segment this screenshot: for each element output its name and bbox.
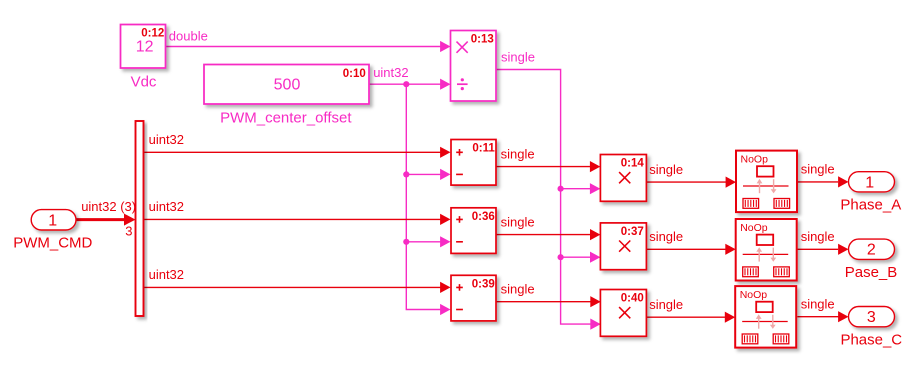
svg-text:single: single xyxy=(801,296,835,311)
svg-text:3: 3 xyxy=(867,309,876,326)
svg-text:NoOp: NoOp xyxy=(740,289,768,301)
svg-text:0:12: 0:12 xyxy=(141,27,164,39)
svg-text:0:13: 0:13 xyxy=(471,33,494,45)
svg-text:single: single xyxy=(501,50,535,65)
svg-text:uint32: uint32 xyxy=(149,132,184,147)
svg-text:Pase_B: Pase_B xyxy=(845,264,898,281)
svg-text:double: double xyxy=(169,29,208,44)
svg-text:0:14: 0:14 xyxy=(621,158,645,170)
svg-text:NoOp: NoOp xyxy=(740,222,768,234)
svg-text:1: 1 xyxy=(48,212,57,229)
svg-text:500: 500 xyxy=(274,77,301,94)
svg-text:single: single xyxy=(501,281,535,296)
svg-text:0:11: 0:11 xyxy=(472,143,495,155)
svg-text:single: single xyxy=(649,297,683,312)
svg-text:Vdc: Vdc xyxy=(131,74,157,91)
svg-text:12: 12 xyxy=(136,39,154,56)
svg-text:0:10: 0:10 xyxy=(343,68,366,80)
svg-text:3: 3 xyxy=(125,224,132,239)
svg-text:0:40: 0:40 xyxy=(621,293,644,305)
svg-text:single: single xyxy=(801,229,835,244)
svg-text:single: single xyxy=(501,146,535,161)
svg-text:0:39: 0:39 xyxy=(472,278,495,290)
svg-text:single: single xyxy=(501,214,535,229)
svg-text:uint32: uint32 xyxy=(149,199,184,214)
svg-text:single: single xyxy=(649,162,683,177)
svg-text:single: single xyxy=(649,229,683,244)
svg-text:uint32 (3): uint32 (3) xyxy=(81,199,136,214)
svg-text:1: 1 xyxy=(865,174,874,191)
svg-text:uint32: uint32 xyxy=(149,267,184,282)
svg-text:single: single xyxy=(801,162,835,177)
svg-text:PWM_CMD: PWM_CMD xyxy=(13,235,92,252)
svg-text:0:37: 0:37 xyxy=(621,226,644,238)
svg-text:PWM_center_offset: PWM_center_offset xyxy=(220,110,352,127)
svg-text:uint32: uint32 xyxy=(373,65,408,80)
svg-text:2: 2 xyxy=(867,242,876,259)
svg-text:Phase_C: Phase_C xyxy=(840,331,902,348)
svg-text:Phase_A: Phase_A xyxy=(840,197,901,214)
svg-text:NoOp: NoOp xyxy=(741,153,769,165)
svg-text:0:36: 0:36 xyxy=(472,211,495,223)
